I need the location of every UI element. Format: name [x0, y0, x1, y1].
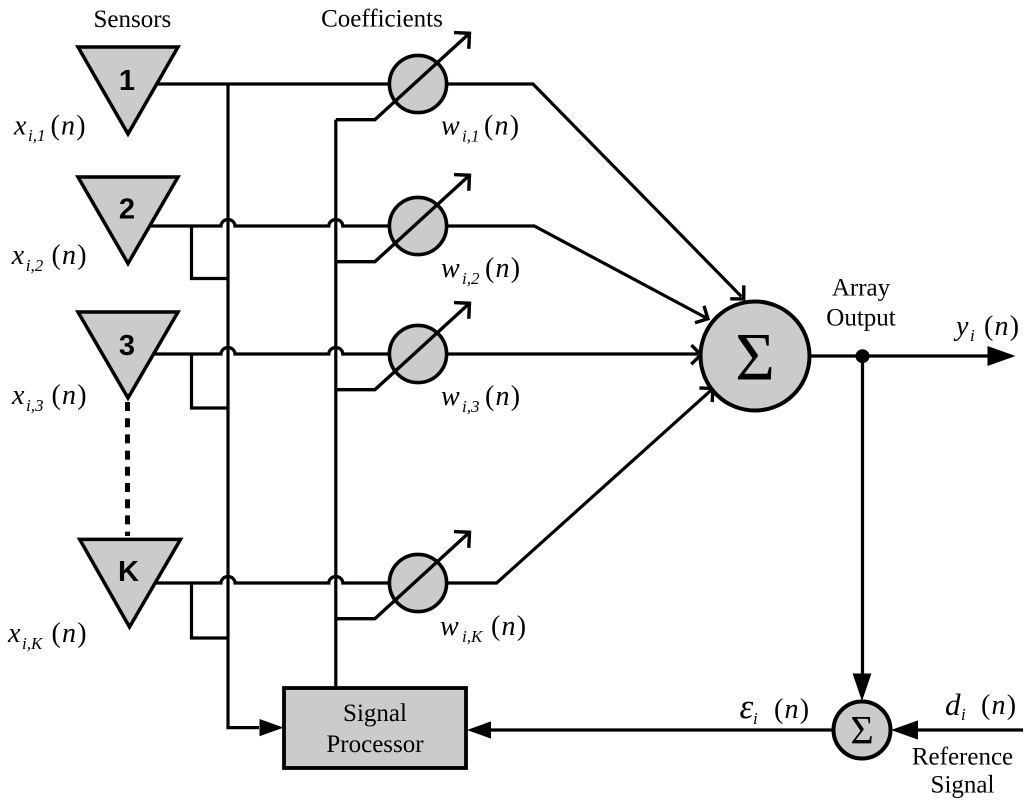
arrowhead into error sum	[853, 674, 872, 702]
svg-text:Σ: Σ	[850, 708, 873, 753]
wire sensor1 to W1	[130, 82, 389, 85]
svg-text:1: 1	[119, 65, 135, 97]
svg-text:Reference: Reference	[912, 744, 1013, 771]
sensor triangle K	[80, 539, 181, 627]
svg-text:i,2: i,2	[26, 256, 44, 275]
wire error sum output to signal processor	[490, 728, 835, 731]
junction dot array output	[856, 349, 870, 363]
weight circle W2	[389, 197, 446, 254]
svg-text:(n): (n)	[52, 380, 88, 411]
wire W2 output to sigma	[447, 226, 706, 318]
svg-text:2: 2	[119, 194, 135, 226]
svg-text:Signal: Signal	[343, 700, 407, 727]
svg-text:(n): (n)	[774, 694, 810, 725]
svg-text:w: w	[441, 381, 460, 412]
svg-text:(n): (n)	[981, 690, 1017, 721]
arrowhead WK into sigma	[699, 388, 713, 402]
summer circle sigma	[701, 302, 810, 411]
svg-text:x: x	[11, 240, 25, 271]
tap sensor2 to bus	[192, 226, 227, 279]
svg-text:Sensors: Sensors	[94, 6, 172, 33]
weight circle W3	[389, 325, 446, 382]
svg-text:Array: Array	[832, 275, 891, 302]
weight circle WK	[389, 554, 446, 611]
arrowhead error into signal processor	[467, 721, 491, 738]
sensor triangle 3	[78, 312, 178, 398]
svg-text:(n): (n)	[484, 111, 520, 142]
arrowhead W2 into sigma	[695, 306, 708, 323]
svg-text:w: w	[440, 611, 459, 642]
svg-text:(n): (n)	[52, 618, 88, 649]
svg-text:i,1: i,1	[462, 127, 479, 146]
error summer circle	[834, 702, 891, 759]
svg-text:y: y	[953, 311, 969, 342]
coefficients bus	[334, 120, 337, 686]
sensor triangle 2	[78, 177, 178, 264]
svg-text:ε: ε	[740, 687, 754, 726]
tap sensorK to bus	[192, 583, 227, 638]
arrowhead bus into signal processor	[260, 719, 284, 736]
svg-text:d: d	[945, 687, 961, 722]
W2 adjust arrow	[336, 175, 470, 261]
svg-text:Σ: Σ	[735, 319, 775, 395]
svg-text:x: x	[7, 618, 21, 649]
svg-text:(n): (n)	[51, 110, 87, 141]
svg-text:(n): (n)	[485, 381, 521, 412]
wire reference input	[918, 728, 1023, 731]
wire W3 output to sigma	[447, 352, 698, 355]
svg-text:Coefficients: Coefficients	[321, 6, 443, 33]
svg-text:(n): (n)	[52, 240, 88, 271]
svg-text:i,K: i,K	[22, 634, 44, 653]
wire sensorK to WK with hops	[130, 577, 389, 583]
svg-text:i,K: i,K	[462, 627, 484, 646]
W1 adjust arrow	[336, 33, 470, 119]
svg-text:i,3: i,3	[26, 396, 43, 415]
WK adjust arrow	[336, 532, 470, 618]
arrowhead W3 into sigma	[691, 345, 701, 364]
svg-text:Signal: Signal	[931, 772, 995, 799]
dashed line sensor3 to sensorK	[125, 402, 130, 536]
bus to signal processor	[228, 84, 259, 728]
wire junction down to error sum	[861, 356, 864, 674]
svg-text:x: x	[11, 380, 25, 411]
svg-text:(n): (n)	[485, 253, 521, 284]
svg-text:(n): (n)	[984, 311, 1020, 342]
sensor triangle 1	[78, 47, 178, 134]
wire sensor3 to W3 with hops	[130, 348, 389, 355]
svg-text:3: 3	[119, 330, 135, 362]
arrowhead array output	[988, 346, 1016, 366]
svg-text:i: i	[970, 326, 975, 345]
arrowhead reference into error sum	[891, 720, 918, 739]
svg-text:w: w	[441, 111, 460, 142]
signal processor box	[284, 688, 466, 768]
svg-text:K: K	[118, 556, 139, 588]
svg-text:x: x	[13, 110, 27, 141]
svg-text:(n): (n)	[491, 611, 527, 642]
weight circle W1	[389, 55, 446, 112]
svg-text:i,3: i,3	[462, 397, 479, 416]
tap sensor3 to bus	[192, 354, 227, 408]
svg-text:Processor: Processor	[326, 731, 424, 758]
wire sigma output to arrow	[810, 354, 990, 357]
W3 adjust arrow	[336, 303, 470, 389]
wire sensor2 to W2 with hops	[130, 220, 389, 226]
wire WK output to sigma	[447, 390, 711, 583]
arrowhead W1 into sigma	[730, 285, 744, 299]
svg-text:Output: Output	[826, 305, 896, 332]
svg-text:i,2: i,2	[462, 269, 480, 288]
svg-text:i,1: i,1	[28, 126, 45, 145]
svg-text:w: w	[441, 253, 460, 284]
svg-text:i: i	[753, 709, 758, 728]
svg-text:i: i	[961, 705, 966, 724]
wire W1 output to sigma	[447, 84, 742, 297]
